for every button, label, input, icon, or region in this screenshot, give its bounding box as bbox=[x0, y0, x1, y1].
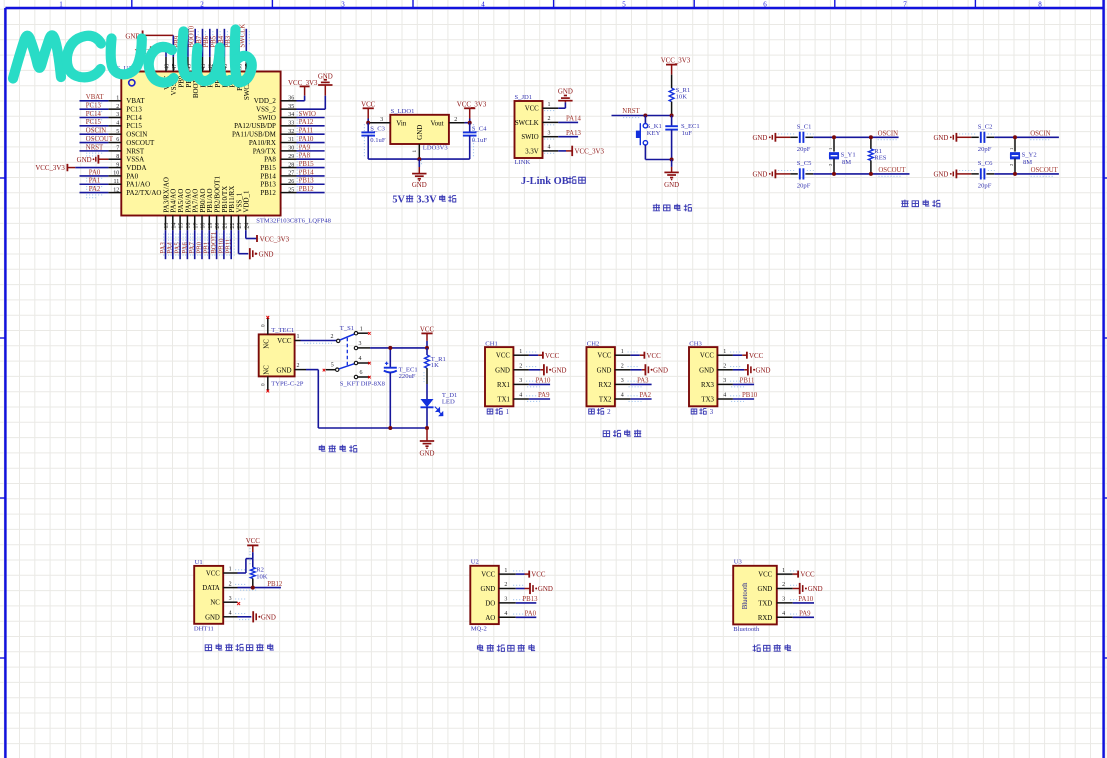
mcu left net labels PA0 PA1 PA2 bbox=[86, 169, 103, 197]
resistor R1 RES bbox=[869, 137, 887, 174]
svg-text:5: 5 bbox=[331, 363, 334, 369]
U1 pins 1-4 numbers and names bbox=[202, 567, 246, 622]
svg-text:TXD: TXD bbox=[758, 600, 772, 607]
svg-text:47: 47 bbox=[172, 64, 178, 70]
ldo U S_LDO1 body bbox=[390, 115, 449, 144]
comment serial port 1 bbox=[487, 408, 509, 416]
svg-text:18: 18 bbox=[201, 223, 207, 229]
wire U2 pin4 net PA0 bbox=[516, 611, 537, 618]
svg-text:GND: GND bbox=[653, 367, 668, 374]
svg-text:S_C6: S_C6 bbox=[978, 160, 993, 167]
ldo comment LDO3V3 bbox=[423, 144, 449, 151]
svg-text:20: 20 bbox=[215, 223, 221, 229]
wire U3 pin3 net PA10 bbox=[793, 596, 814, 603]
connector T_TEC1 TYPE-C-2P body bbox=[259, 334, 295, 376]
svg-text:PB12: PB12 bbox=[267, 581, 283, 588]
module U3 Bluetooth body bbox=[733, 566, 777, 625]
mcu U1 left pins 1-12 with numbers and names bbox=[108, 96, 161, 197]
wire CH3 pin3 net PB11 bbox=[731, 378, 754, 387]
svg-text:PC15: PC15 bbox=[126, 122, 142, 130]
svg-text:NRST: NRST bbox=[622, 108, 640, 115]
connector CH1 body bbox=[485, 347, 513, 406]
svg-text:4: 4 bbox=[504, 611, 507, 617]
svg-text:PA10: PA10 bbox=[299, 136, 314, 143]
junction led bottom node bbox=[425, 426, 429, 430]
svg-text:PA1: PA1 bbox=[89, 178, 100, 185]
resistor R2 10K pullup bbox=[250, 559, 267, 588]
svg-text:10: 10 bbox=[113, 171, 119, 177]
junction vcc node bbox=[425, 346, 429, 350]
svg-text:48: 48 bbox=[165, 64, 171, 70]
svg-text:9: 9 bbox=[116, 162, 119, 168]
svg-text:3: 3 bbox=[116, 112, 119, 118]
svg-text:0.1uF: 0.1uF bbox=[370, 137, 386, 144]
svg-text:1K: 1K bbox=[431, 362, 439, 369]
svg-text:VCC: VCC bbox=[481, 572, 495, 579]
comment MQ-2 bbox=[471, 626, 487, 633]
svg-text:34: 34 bbox=[288, 112, 294, 118]
svg-text:1: 1 bbox=[360, 326, 363, 332]
mcu left net labels VBAT PC13 PC14 PC15 OSCIN OSCOUT NRST bbox=[86, 94, 114, 156]
svg-text:VCC: VCC bbox=[700, 353, 714, 360]
tec1 pin 2 GND bbox=[295, 363, 306, 370]
wire tec1 pin1 to switch pole bbox=[301, 341, 337, 344]
svg-text:PA0: PA0 bbox=[126, 172, 138, 180]
mcu comment STM32F103C8T6_LQFP48 bbox=[256, 218, 331, 225]
mcu top net labels PB9 PB8 BOOT0 PB7 PB6 PB5 PB4 PB3 PA15 SWCLK bbox=[174, 24, 249, 48]
power VCC at CH3 pin1 bbox=[733, 352, 764, 360]
power GND earth below ldo bbox=[412, 159, 427, 189]
U1 pin3 NC no-erc cross bbox=[237, 602, 240, 605]
svg-text:VCC: VCC bbox=[749, 353, 764, 360]
power GND earth above jlink bbox=[558, 89, 573, 103]
svg-text:GND: GND bbox=[752, 135, 767, 142]
designator U3 bbox=[734, 559, 743, 566]
svg-text:8: 8 bbox=[116, 154, 119, 160]
svg-text:4: 4 bbox=[481, 0, 485, 8]
CH3 pins 1-4 numbers and names bbox=[699, 349, 741, 404]
junction dht data node bbox=[251, 586, 255, 590]
svg-text:PB6: PB6 bbox=[203, 35, 210, 47]
power VCC_3V3 at mcu pin 24 VDD_1 bbox=[246, 230, 290, 243]
power VCC at CH2 pin1 bbox=[630, 352, 661, 360]
svg-text:GND: GND bbox=[77, 157, 92, 164]
svg-text:2: 2 bbox=[229, 581, 232, 587]
connector CH3 body bbox=[689, 347, 717, 406]
svg-text:DHT11: DHT11 bbox=[194, 626, 214, 633]
svg-text:VCC: VCC bbox=[525, 106, 539, 113]
svg-text:NC: NC bbox=[210, 600, 220, 607]
svg-text:33: 33 bbox=[288, 121, 294, 127]
svg-text:4: 4 bbox=[359, 356, 362, 362]
capacitor T_EC1 220uF polarized bbox=[384, 348, 418, 428]
power GND at mcu pin 8 VSSA bbox=[77, 155, 109, 164]
svg-text:NC: NC bbox=[263, 339, 270, 349]
svg-text:3: 3 bbox=[359, 341, 362, 347]
power VCC above ldo bbox=[361, 102, 376, 123]
svg-text:RX2: RX2 bbox=[599, 382, 612, 389]
svg-text:OSCOUT: OSCOUT bbox=[126, 139, 155, 147]
svg-text:17: 17 bbox=[193, 223, 199, 229]
svg-text:4: 4 bbox=[229, 611, 232, 617]
svg-text:OSCOUT: OSCOUT bbox=[1031, 167, 1059, 174]
caption temperature humidity module bbox=[205, 644, 274, 651]
svg-text:0: 0 bbox=[261, 324, 267, 327]
designator CH3 bbox=[689, 341, 702, 348]
wire jlink pin1 to ground bbox=[558, 102, 565, 108]
designator CH1 bbox=[485, 341, 497, 348]
svg-text:5V: 5V bbox=[392, 194, 405, 205]
svg-text:PB13: PB13 bbox=[260, 181, 276, 189]
connector CH2 body bbox=[587, 347, 615, 406]
svg-text:6: 6 bbox=[116, 137, 119, 143]
comment DHT11 bbox=[194, 626, 214, 633]
svg-text:4: 4 bbox=[621, 393, 624, 399]
svg-text:RX1: RX1 bbox=[497, 382, 510, 389]
svg-text:3: 3 bbox=[380, 117, 383, 123]
svg-text:NRST: NRST bbox=[126, 147, 145, 155]
caption power circuit bbox=[319, 445, 357, 452]
net label OSCIN bbox=[1030, 130, 1050, 139]
svg-text:5: 5 bbox=[622, 0, 626, 8]
svg-text:20pF: 20pF bbox=[978, 183, 992, 190]
svg-text:RES: RES bbox=[874, 154, 886, 161]
svg-text:8: 8 bbox=[1038, 0, 1042, 8]
svg-text:10K: 10K bbox=[256, 573, 268, 580]
svg-text:PA9: PA9 bbox=[799, 611, 811, 618]
svg-text:PB13: PB13 bbox=[299, 178, 315, 185]
svg-text:26: 26 bbox=[288, 179, 294, 185]
tec1 pin names VCC GND bbox=[276, 337, 291, 374]
U3 Bluetooth vertical pin name bbox=[742, 582, 749, 609]
junction ldo output node bbox=[468, 121, 472, 125]
tec1 pin 1 VCC bbox=[295, 334, 301, 341]
junction nrst node bbox=[643, 114, 673, 118]
capacitor S_C2 20pF bbox=[959, 124, 995, 153]
wire switch pin3 to vcc rail bbox=[370, 347, 427, 349]
comment Bluetooth below body bbox=[733, 626, 760, 633]
svg-text:OSCOUT: OSCOUT bbox=[878, 167, 906, 174]
svg-text:GND: GND bbox=[699, 367, 714, 374]
jlink comment LINK bbox=[515, 159, 531, 166]
svg-text:PA10: PA10 bbox=[536, 378, 551, 385]
svg-text:GND: GND bbox=[420, 451, 435, 458]
svg-text:RXD: RXD bbox=[758, 615, 772, 622]
designator U2 bbox=[471, 559, 479, 566]
caption 5V to 3.3V circuit bbox=[392, 194, 456, 205]
svg-text:13: 13 bbox=[164, 223, 170, 229]
wire tec1 pin2 down to ground rail bbox=[306, 370, 318, 428]
svg-text:5: 5 bbox=[116, 129, 119, 135]
svg-text:23: 23 bbox=[237, 223, 243, 229]
svg-text:25: 25 bbox=[288, 187, 294, 193]
power GND at mcu pin 23 VSS_1 bbox=[239, 230, 274, 259]
svg-text:T_S1: T_S1 bbox=[340, 325, 354, 332]
tec1 designator T_TEC1 bbox=[271, 327, 294, 334]
svg-text:1uF: 1uF bbox=[682, 130, 693, 137]
svg-text:3: 3 bbox=[548, 130, 551, 136]
svg-text:GND: GND bbox=[205, 614, 220, 621]
svg-text:29: 29 bbox=[288, 154, 294, 160]
svg-text:S_C2: S_C2 bbox=[978, 124, 993, 131]
power VCC above dht11 bbox=[246, 538, 261, 566]
ldo ground rail wire bbox=[368, 158, 470, 160]
svg-text:10K: 10K bbox=[676, 94, 688, 101]
svg-text:16: 16 bbox=[186, 223, 192, 229]
svg-text:VCC: VCC bbox=[206, 571, 220, 578]
key switch S_K1 KEY bbox=[636, 116, 662, 160]
power GND at U3 pin2 bbox=[793, 583, 823, 594]
svg-text:36: 36 bbox=[288, 96, 294, 102]
svg-text:4: 4 bbox=[723, 393, 726, 399]
svg-text:2: 2 bbox=[548, 116, 551, 122]
jlink pins 1-4 with numbers and names bbox=[515, 102, 558, 155]
svg-text:6: 6 bbox=[763, 0, 767, 8]
logo MCUclub bbox=[13, 30, 252, 83]
ldo designator S_LDO1 bbox=[391, 108, 415, 115]
svg-text:21: 21 bbox=[223, 223, 229, 229]
resistor T_R1 1K bbox=[424, 348, 446, 384]
svg-text:GND: GND bbox=[597, 367, 612, 374]
mcu U1 bottom pins 13-24 with numbers and names bbox=[162, 176, 250, 231]
svg-text:2: 2 bbox=[331, 334, 334, 340]
wire U1 pin2 DATA net PB12 bbox=[238, 581, 283, 590]
svg-text:7: 7 bbox=[116, 146, 119, 152]
svg-text:VBAT: VBAT bbox=[126, 97, 145, 105]
power GND at U2 pin2 bbox=[516, 583, 553, 594]
svg-text:TX2: TX2 bbox=[599, 397, 612, 404]
svg-text:3.3V: 3.3V bbox=[525, 148, 538, 155]
power VCC_3V3 above ldo output bbox=[457, 102, 487, 123]
svg-text:CH1: CH1 bbox=[485, 341, 497, 348]
svg-text:SWCLK: SWCLK bbox=[515, 120, 539, 127]
svg-text:VCC: VCC bbox=[545, 353, 560, 360]
svg-text:2: 2 bbox=[116, 104, 119, 110]
svg-text:220uF: 220uF bbox=[399, 373, 416, 380]
net label OSCOUT bbox=[878, 167, 906, 176]
svg-text:19: 19 bbox=[208, 223, 214, 229]
caption bluetooth module bbox=[753, 644, 792, 651]
svg-text:24: 24 bbox=[244, 223, 250, 229]
svg-text:VCC: VCC bbox=[597, 353, 611, 360]
svg-text:OSCIN: OSCIN bbox=[86, 128, 106, 135]
junction R1 nodes bbox=[869, 135, 873, 176]
svg-text:VBAT: VBAT bbox=[86, 94, 105, 101]
svg-text:28: 28 bbox=[288, 162, 294, 168]
crystal S_Y2 8M bbox=[1009, 137, 1037, 174]
net label OSCIN bbox=[878, 130, 898, 139]
mcu U1 right pins 25-36 with numbers and names bbox=[232, 96, 296, 197]
power VCC_3V3 at jlink pin4 bbox=[558, 146, 604, 156]
svg-text:PA9/TX: PA9/TX bbox=[253, 147, 276, 155]
svg-text:LED: LED bbox=[442, 398, 455, 405]
svg-text:PB12: PB12 bbox=[299, 186, 315, 193]
wire U3 pin4 net PA9 bbox=[793, 611, 814, 618]
net label OSCOUT bbox=[1031, 167, 1059, 176]
svg-text:DO: DO bbox=[485, 600, 495, 607]
svg-text:PB13: PB13 bbox=[522, 596, 538, 603]
power GND at CH2 pin2 bbox=[630, 364, 668, 375]
wire power ground rail bbox=[318, 427, 427, 429]
power VCC at U3 pin1 bbox=[793, 571, 815, 579]
svg-text:S_Y1: S_Y1 bbox=[841, 151, 856, 158]
svg-text:3.3V: 3.3V bbox=[417, 194, 438, 205]
power GND at S_C1 input bbox=[752, 133, 790, 142]
wire OSCOUT row to S_Y1 bbox=[813, 173, 909, 175]
svg-text:J-Link OB: J-Link OB bbox=[521, 176, 569, 187]
svg-text:S_LDO1: S_LDO1 bbox=[391, 108, 415, 115]
svg-text:PA2: PA2 bbox=[89, 186, 101, 193]
svg-text:1: 1 bbox=[519, 349, 522, 355]
svg-text:PA12: PA12 bbox=[299, 119, 314, 126]
svg-text:TX1: TX1 bbox=[497, 397, 509, 404]
led T_D1 bbox=[421, 384, 458, 428]
svg-text:GND: GND bbox=[752, 172, 767, 179]
svg-text:12: 12 bbox=[113, 187, 119, 193]
svg-text:MQ-2: MQ-2 bbox=[471, 626, 487, 633]
svg-text:VCC: VCC bbox=[496, 353, 510, 360]
svg-text:VCC: VCC bbox=[647, 353, 662, 360]
capacitor S_C5 20pF bbox=[778, 160, 814, 189]
svg-text:20pF: 20pF bbox=[797, 183, 811, 190]
wire CH2 pin3 net PA3 bbox=[629, 378, 652, 387]
svg-text:PA3: PA3 bbox=[637, 378, 649, 385]
svg-text:GND: GND bbox=[495, 367, 510, 374]
svg-text:VCC: VCC bbox=[246, 538, 261, 545]
svg-text:3: 3 bbox=[621, 378, 624, 384]
svg-text:4: 4 bbox=[782, 611, 785, 617]
svg-text:20pF: 20pF bbox=[978, 146, 992, 153]
svg-text:U3: U3 bbox=[734, 559, 743, 566]
designator U1 bbox=[195, 559, 203, 566]
ldo pin 3 Vin bbox=[368, 117, 407, 127]
caption smoke detect module bbox=[477, 644, 535, 651]
svg-text:OSCIN: OSCIN bbox=[1030, 130, 1050, 137]
svg-text:22: 22 bbox=[230, 223, 236, 229]
svg-text:4: 4 bbox=[548, 145, 551, 151]
svg-text:1: 1 bbox=[59, 0, 63, 8]
power VCC at CH1 pin1 bbox=[529, 352, 560, 360]
svg-text:VCC: VCC bbox=[800, 572, 815, 579]
svg-text:0.1uF: 0.1uF bbox=[472, 137, 488, 144]
power GND at mcu pin 47 VSS_3 bbox=[125, 31, 173, 57]
ldo pin 2 Vout bbox=[430, 117, 469, 127]
svg-text:VCC: VCC bbox=[531, 572, 546, 579]
svg-text:PC15: PC15 bbox=[86, 119, 102, 126]
svg-text:6: 6 bbox=[360, 370, 363, 376]
tec1 bottom stub pin with no-erc cross bbox=[261, 376, 270, 392]
junction reset ground node bbox=[670, 158, 674, 162]
wire reset bottom rail bbox=[645, 159, 671, 161]
capacitor S_C4 0.1uF bbox=[463, 123, 487, 159]
wire net NRST bbox=[612, 108, 672, 117]
junction ec1 nodes bbox=[388, 346, 392, 430]
svg-text:TX3: TX3 bbox=[701, 397, 714, 404]
svg-text:VDD_1: VDD_1 bbox=[243, 190, 251, 213]
svg-text:2: 2 bbox=[504, 582, 507, 588]
svg-text:14: 14 bbox=[171, 223, 177, 229]
svg-text:GND: GND bbox=[933, 172, 948, 179]
svg-text:S_C5: S_C5 bbox=[797, 160, 812, 167]
power GND earth below reset bbox=[664, 160, 679, 189]
power VCC at U2 pin1 bbox=[516, 571, 546, 579]
capacitor S_EC1 1uF bbox=[665, 116, 699, 160]
ldo pin 1 GND bbox=[412, 125, 424, 159]
power VCC above led branch bbox=[420, 326, 435, 348]
wire U1 pin1 to vcc branch bbox=[238, 559, 253, 573]
power VCC at mcu pin 48 bbox=[135, 46, 166, 57]
svg-text:32: 32 bbox=[288, 129, 294, 135]
svg-text:GND: GND bbox=[416, 125, 424, 140]
svg-text:PB14: PB14 bbox=[299, 169, 315, 176]
svg-text:VCC_3V3: VCC_3V3 bbox=[661, 58, 691, 65]
svg-text:SWIO: SWIO bbox=[521, 134, 538, 141]
U2 pins 1-4 numbers and names bbox=[480, 568, 524, 622]
resistor S_R1 10K bbox=[669, 75, 690, 116]
capacitor S_C3 0.1uF bbox=[361, 123, 385, 159]
svg-text:PB14: PB14 bbox=[260, 172, 276, 180]
svg-text:GND: GND bbox=[538, 586, 553, 593]
svg-text:OSCIN: OSCIN bbox=[126, 131, 147, 139]
power GND earth at mcu pin 35 VSS_2 bbox=[297, 74, 333, 109]
power VCC_3V3 at mcu pin 9 VDDA bbox=[35, 164, 108, 172]
junction ldo ground node bbox=[417, 157, 421, 161]
svg-text:T_TEC1: T_TEC1 bbox=[271, 327, 294, 334]
svg-text:3: 3 bbox=[229, 596, 232, 602]
svg-text:VCC: VCC bbox=[420, 326, 435, 333]
svg-text:U1: U1 bbox=[195, 559, 203, 566]
svg-text:15: 15 bbox=[179, 223, 185, 229]
svg-text:GND: GND bbox=[552, 367, 567, 374]
svg-text:GND: GND bbox=[808, 586, 823, 593]
svg-text:DATA: DATA bbox=[202, 585, 220, 592]
svg-text:3: 3 bbox=[519, 378, 522, 384]
svg-text:PA10: PA10 bbox=[798, 596, 813, 603]
svg-text:LINK: LINK bbox=[515, 159, 531, 166]
wire OSCIN row to S_Y2 bbox=[994, 136, 1059, 138]
svg-text:27: 27 bbox=[288, 171, 294, 177]
svg-text:PA2/TX/AO: PA2/TX/AO bbox=[126, 189, 161, 197]
module U2 MQ-2 body bbox=[470, 566, 499, 624]
svg-text:GND: GND bbox=[261, 614, 276, 621]
svg-text:PA12/USB/DP: PA12/USB/DP bbox=[234, 122, 276, 130]
svg-text:TYPE-C-2P: TYPE-C-2P bbox=[271, 380, 304, 387]
wire CH3 pin4 net PB10 bbox=[731, 392, 758, 401]
svg-text:OSCIN: OSCIN bbox=[878, 130, 898, 137]
svg-text:S_KFT DIP-8X8: S_KFT DIP-8X8 bbox=[340, 380, 386, 387]
svg-text:0: 0 bbox=[261, 383, 267, 386]
svg-text:PA8: PA8 bbox=[264, 156, 276, 164]
svg-text:NRST: NRST bbox=[86, 144, 104, 151]
svg-text:GND: GND bbox=[933, 135, 948, 142]
svg-text:STM32F103C8T6_LQFP48: STM32F103C8T6_LQFP48 bbox=[256, 218, 331, 225]
svg-text:OSCOUT: OSCOUT bbox=[86, 136, 114, 143]
svg-text:VSSA: VSSA bbox=[126, 156, 144, 164]
switch T_S1 S_KFT DIP-8X8 bbox=[323, 325, 386, 388]
svg-text:8M: 8M bbox=[1023, 159, 1032, 166]
svg-text:PB15: PB15 bbox=[299, 161, 315, 168]
svg-text:GND: GND bbox=[412, 182, 427, 189]
svg-text:SWIO: SWIO bbox=[258, 114, 276, 122]
svg-text:2: 2 bbox=[723, 364, 726, 370]
svg-text:4: 4 bbox=[519, 393, 522, 399]
svg-text:U2: U2 bbox=[471, 559, 479, 566]
wire U2 pin3 net PB13 bbox=[516, 596, 538, 603]
wire CH2 pin4 net PA2 bbox=[629, 392, 652, 401]
svg-text:2: 2 bbox=[621, 364, 624, 370]
svg-text:S_C1: S_C1 bbox=[797, 124, 812, 131]
svg-text:PC14: PC14 bbox=[86, 111, 102, 118]
